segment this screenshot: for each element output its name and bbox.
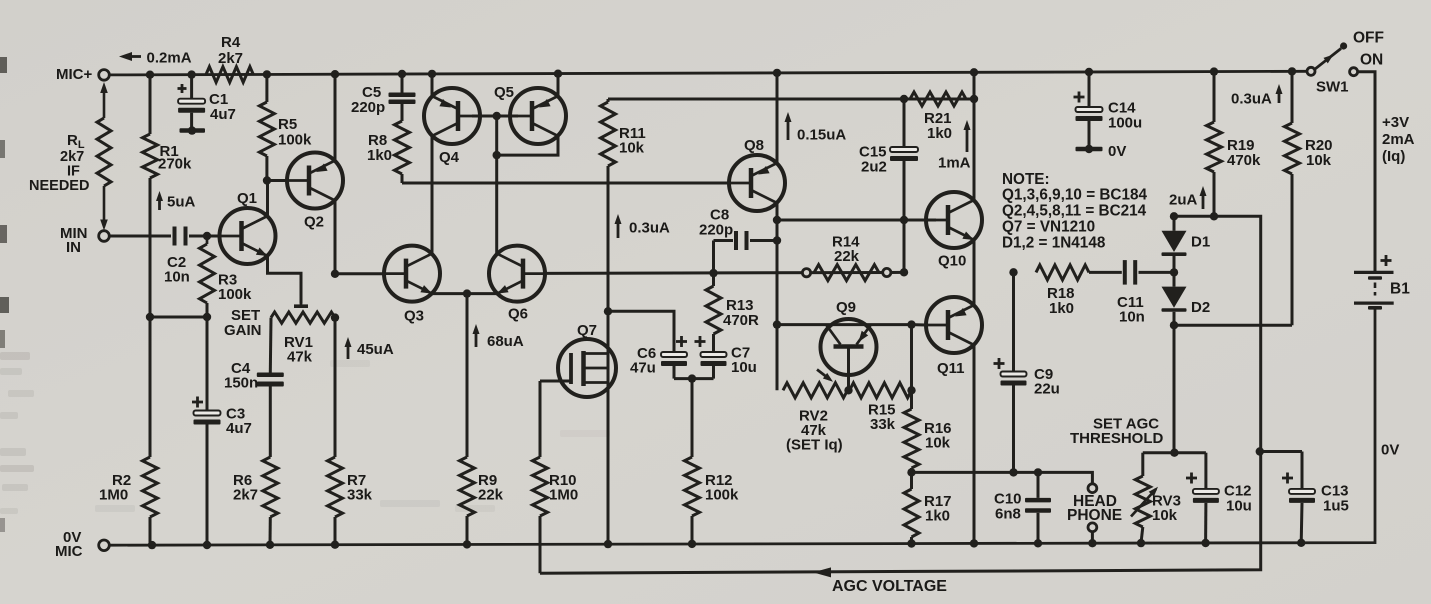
svg-text:D2: D2 <box>1191 299 1210 316</box>
svg-text:2k7: 2k7 <box>218 50 243 67</box>
svg-text:45uA: 45uA <box>357 341 394 358</box>
svg-text:1k0: 1k0 <box>927 125 952 142</box>
svg-text:+3V: +3V <box>1382 114 1409 131</box>
svg-text:470R: 470R <box>723 312 759 329</box>
svg-text:D1: D1 <box>1191 234 1210 251</box>
svg-text:MIC+: MIC+ <box>56 66 92 83</box>
svg-text:Q7: Q7 <box>577 322 597 339</box>
svg-text:10k: 10k <box>925 435 951 452</box>
svg-text:Q2,4,5,8,11 = BC214: Q2,4,5,8,11 = BC214 <box>1002 203 1147 220</box>
svg-text:100k: 100k <box>278 132 312 149</box>
svg-text:68uA: 68uA <box>487 333 524 350</box>
svg-text:NOTE:: NOTE: <box>1002 171 1050 188</box>
svg-text:4u7: 4u7 <box>210 106 236 123</box>
svg-text:Q10: Q10 <box>938 253 966 270</box>
svg-text:ON: ON <box>1360 52 1383 69</box>
svg-text:150n: 150n <box>224 375 258 392</box>
svg-text:(Iq): (Iq) <box>1382 148 1405 165</box>
svg-text:1M0: 1M0 <box>99 487 128 504</box>
svg-text:10k: 10k <box>1306 152 1332 169</box>
svg-text:10n: 10n <box>1119 309 1145 326</box>
svg-text:IN: IN <box>66 239 81 256</box>
svg-text:Q2: Q2 <box>304 214 324 231</box>
svg-text:220p: 220p <box>699 222 733 239</box>
svg-text:1k0: 1k0 <box>925 508 950 525</box>
svg-text:100k: 100k <box>218 286 252 303</box>
svg-text:2mA: 2mA <box>1382 131 1415 148</box>
svg-text:47k: 47k <box>287 349 313 366</box>
svg-text:AGC VOLTAGE: AGC VOLTAGE <box>832 578 947 595</box>
svg-text:1k0: 1k0 <box>1049 300 1074 317</box>
svg-text:NEEDED: NEEDED <box>29 178 89 194</box>
svg-text:22k: 22k <box>478 487 504 504</box>
svg-text:6n8: 6n8 <box>995 506 1021 523</box>
svg-text:0V: 0V <box>1381 442 1399 459</box>
svg-text:B1: B1 <box>1390 281 1410 298</box>
svg-text:0.3uA: 0.3uA <box>629 220 670 237</box>
svg-text:0.15uA: 0.15uA <box>797 127 846 144</box>
svg-text:Q11: Q11 <box>937 360 965 377</box>
svg-text:0V: 0V <box>1108 143 1126 160</box>
svg-text:10n: 10n <box>164 269 190 286</box>
svg-text:Q9: Q9 <box>836 299 856 316</box>
svg-text:4u7: 4u7 <box>226 420 252 437</box>
svg-text:22k: 22k <box>834 248 860 265</box>
svg-text:Q7 = VN1210: Q7 = VN1210 <box>1002 219 1095 236</box>
svg-text:10k: 10k <box>1152 507 1178 524</box>
svg-text:33k: 33k <box>870 416 896 433</box>
svg-text:Q5: Q5 <box>494 84 514 101</box>
svg-text:270k: 270k <box>158 156 192 173</box>
svg-text:Q1,3,6,9,10 = BC184: Q1,3,6,9,10 = BC184 <box>1002 187 1147 204</box>
svg-text:2k7: 2k7 <box>233 487 258 504</box>
svg-text:1mA: 1mA <box>938 155 971 172</box>
svg-text:Q8: Q8 <box>744 137 764 154</box>
svg-text:Q1: Q1 <box>237 190 257 207</box>
svg-text:100u: 100u <box>1108 115 1142 132</box>
svg-text:Q6: Q6 <box>508 306 528 323</box>
svg-text:5uA: 5uA <box>167 194 196 211</box>
svg-text:22u: 22u <box>1034 381 1060 398</box>
svg-text:SW1: SW1 <box>1316 79 1349 96</box>
svg-text:0.3uA: 0.3uA <box>1231 91 1272 108</box>
svg-text:10k: 10k <box>619 140 645 157</box>
svg-text:PHONE: PHONE <box>1067 507 1122 524</box>
svg-text:D1,2 = 1N4148: D1,2 = 1N4148 <box>1002 235 1106 252</box>
svg-text:10u: 10u <box>731 359 757 376</box>
svg-text:33k: 33k <box>347 487 373 504</box>
svg-text:220p: 220p <box>351 99 385 116</box>
svg-text:2u2: 2u2 <box>861 159 887 176</box>
svg-text:2uA: 2uA <box>1169 192 1198 209</box>
svg-text:10u: 10u <box>1226 498 1252 515</box>
svg-text:1k0: 1k0 <box>367 147 392 164</box>
svg-text:Q3: Q3 <box>404 308 424 325</box>
svg-text:Q4: Q4 <box>439 149 460 166</box>
svg-text:(SET Iq): (SET Iq) <box>786 437 843 454</box>
svg-text:47u: 47u <box>630 360 656 377</box>
svg-text:0.2mA: 0.2mA <box>147 50 192 67</box>
svg-text:R5: R5 <box>278 116 297 133</box>
svg-text:470k: 470k <box>1227 152 1261 169</box>
svg-text:R4: R4 <box>221 34 241 51</box>
svg-text:100k: 100k <box>705 487 739 504</box>
svg-text:OFF: OFF <box>1353 30 1384 47</box>
svg-text:GAIN: GAIN <box>224 322 262 339</box>
svg-text:1u5: 1u5 <box>1323 498 1349 515</box>
svg-text:1M0: 1M0 <box>549 487 578 504</box>
svg-text:MIC: MIC <box>55 543 83 560</box>
svg-text:THRESHOLD: THRESHOLD <box>1070 430 1164 447</box>
